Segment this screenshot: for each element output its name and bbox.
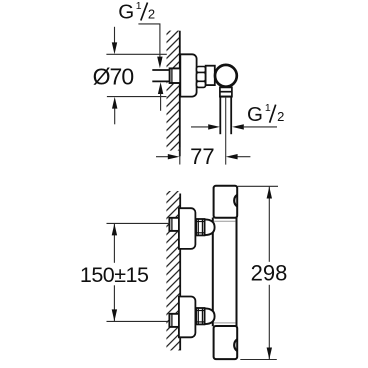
svg-text:150±15: 150±15 (80, 263, 149, 287)
dimension 150+-15 extension lines (107, 222, 170, 224)
supply pipe stub in wall (top view) (152, 70, 169, 81)
svg-text:77: 77 (190, 144, 214, 169)
top knob safety button (234, 195, 237, 206)
dimension 298 line and arrows (268, 186, 270, 261)
svg-text:1: 1 (136, 0, 142, 12)
leader from G1/2 to pipe top edge (138, 24, 160, 57)
hex union nut (top view, three flats) (197, 67, 206, 73)
outlet pipe down (top view) (219, 97, 221, 135)
lower S-union dome (205, 308, 215, 324)
faint ring lines on body (214, 220, 236, 222)
upper union nut (196, 219, 204, 235)
bottom knob safety button (234, 339, 237, 350)
wall (top view) hatched section (167, 31, 181, 151)
svg-text:2: 2 (277, 109, 284, 124)
escutcheon flange (top view) (180, 54, 196, 96)
dimension D70 arrows (114, 27, 116, 43)
G1/2 arrows at outlet pipe (191, 126, 208, 128)
dimension 77 arrows (156, 156, 169, 158)
svg-text:298: 298 (251, 261, 288, 286)
bottom volume knob (214, 326, 238, 359)
upper S-union dome (205, 219, 215, 235)
svg-text:1: 1 (265, 102, 271, 114)
arrow to pipe bottom edge (158, 82, 163, 94)
upper wall connection square (169, 218, 180, 231)
svg-text:G: G (118, 1, 134, 24)
svg-text:G: G (247, 103, 263, 126)
outlet pipe centerline extension (225, 97, 227, 165)
lower union nut (196, 308, 204, 324)
dimension 150+-15 line and arrows (113, 223, 115, 262)
top temperature knob (214, 186, 238, 218)
outlet collar below valve (top view) (220, 87, 232, 96)
lower wall connection square (169, 314, 180, 327)
svg-text:2: 2 (148, 7, 155, 22)
mixer body side edges (212, 218, 214, 327)
wall (front/bottom view) hatched section (166, 191, 180, 350)
upper escutcheon (bottom view) (179, 208, 196, 249)
wall surface line (top view) (179, 31, 181, 157)
dimension 77 extension line at wall surface (179, 147, 181, 164)
dimension 298 extension lines (238, 185, 278, 187)
dimension D70 extension lines (106, 53, 166, 55)
svg-text:Ø70: Ø70 (93, 63, 134, 89)
wall elbow fitting (top view) (170, 68, 181, 83)
wall surface line (bottom view) (179, 194, 181, 351)
valve inlet body (top view) (206, 66, 215, 85)
lower escutcheon (bottom view) (179, 297, 196, 338)
valve body circle (top view) (215, 65, 237, 87)
